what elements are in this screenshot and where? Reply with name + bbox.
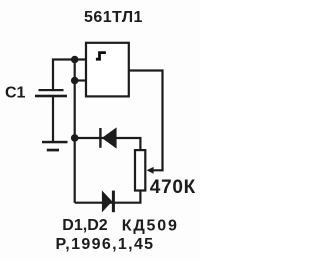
svg-text:470К: 470К	[150, 177, 196, 198]
svg-text:D1,D2: D1,D2	[62, 217, 107, 234]
svg-text:C1: C1	[5, 84, 26, 101]
svg-text:561ТЛ1: 561ТЛ1	[84, 9, 143, 26]
svg-text:Р,1996,1,45: Р,1996,1,45	[56, 236, 155, 253]
svg-text:КД509: КД509	[122, 218, 179, 235]
